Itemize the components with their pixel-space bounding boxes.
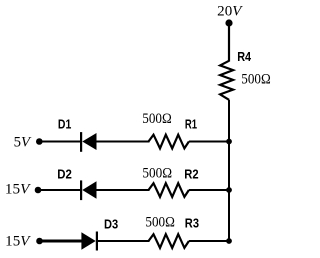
wire R2 to rail: [189, 189, 229, 191]
svg-text:500Ω: 500Ω: [145, 215, 175, 231]
terminal dot 5V: [36, 138, 43, 145]
diode D1: [81, 132, 96, 152]
svg-text:D1: D1: [58, 116, 71, 131]
svg-text:D2: D2: [57, 167, 72, 182]
wire D1 to R1: [97, 141, 150, 143]
svg-text:R4: R4: [237, 49, 252, 64]
svg-text:500Ω: 500Ω: [241, 72, 270, 88]
svg-text:500Ω: 500Ω: [142, 165, 172, 181]
terminal dot 15V branch 2: [35, 187, 42, 194]
resistor R2: [149, 183, 189, 197]
svg-text:20V: 20V: [217, 4, 243, 20]
resistor R1: [149, 135, 189, 149]
diode D2: [81, 180, 96, 200]
svg-text:15V: 15V: [5, 234, 31, 250]
wire D2 to R2: [97, 189, 150, 191]
wire from 20V terminal to R4: [228, 23, 230, 62]
junction dot branch 1: [226, 139, 232, 145]
terminal dot 20V: [225, 19, 232, 26]
wire R1 to rail: [189, 141, 229, 143]
svg-text:R2: R2: [184, 167, 198, 182]
wire D3 to R3: [97, 240, 150, 242]
wire right rail from R4 down to branch 3: [228, 100, 230, 241]
diode D3: [81, 232, 97, 251]
wire R3 to rail: [189, 240, 229, 242]
svg-text:R1: R1: [185, 117, 197, 132]
svg-text:R3: R3: [185, 216, 199, 231]
wire 15V terminal to D2: [38, 189, 81, 191]
junction dot branch 2: [226, 187, 232, 193]
svg-text:500Ω: 500Ω: [142, 111, 171, 127]
svg-text:15V: 15V: [5, 181, 31, 197]
wire 15V terminal to D3 (thick): [40, 240, 83, 243]
svg-text:D3: D3: [104, 217, 118, 232]
wire 5V terminal to D1: [39, 141, 81, 143]
resistor R3: [149, 234, 189, 248]
svg-text:5V: 5V: [14, 134, 32, 150]
terminal dot 15V branch 3: [36, 238, 43, 245]
junction dot branch 3: [226, 238, 232, 244]
resistor R4: [220, 61, 233, 100]
